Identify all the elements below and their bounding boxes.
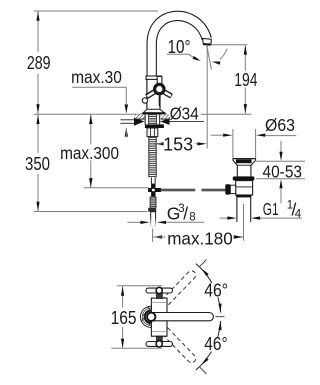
faucet spout outlet nozzle (203, 38, 212, 44)
supply tube (151, 212, 156, 227)
top view lower handle stem (157, 336, 163, 341)
deck hatch left (135, 115, 145, 119)
wire extension line lower connection level (34, 211, 148, 213)
top view lower handle bar (146, 342, 173, 347)
dimension 40-53 line (280, 141, 282, 152)
svg-text:46°: 46° (204, 281, 228, 301)
mounting nut (147, 128, 158, 137)
wire extension line top view upper (117, 285, 162, 287)
drain bottom band (236, 195, 251, 197)
svg-text:max.180: max.180 (167, 229, 233, 249)
pop-up cross fitting (151, 184, 155, 197)
pop-up horizontal rod (161, 188, 195, 190)
dimension 40-53 extension lines (256, 160, 305, 162)
drain o-ring (233, 176, 255, 180)
dimension 350 line (37, 114, 39, 153)
dimension 153 line (160, 143, 162, 145)
top view lower handle hub (156, 341, 162, 347)
faucet shank through deck (144, 114, 146, 124)
svg-text:max.300: max.300 (60, 143, 119, 163)
top view escutcheon (140, 306, 161, 327)
dimension 289 line (37, 11, 39, 52)
label diameter 34 leader (169, 121, 204, 123)
mounting washer (145, 124, 164, 128)
faucet shank thread upper (149, 114, 157, 116)
dimension 194 line (244, 45, 246, 71)
wire extension line spout outlet level (211, 44, 247, 46)
wire extension line top (spout apex level) (34, 10, 158, 12)
top view upper handle bar (146, 288, 173, 293)
dimension max.300 line (90, 114, 92, 145)
drain rod stub (230, 185, 235, 193)
hose nut G3/8 (148, 208, 156, 212)
faucet body tube (146, 79, 148, 109)
top view upper handle stem (157, 293, 163, 298)
top view spout hub (147, 313, 155, 321)
drain neck (236, 165, 238, 176)
svg-text:4: 4 (295, 208, 302, 220)
svg-text:max.30: max.30 (71, 67, 122, 87)
swivel arc lower arrowheads (201, 358, 208, 366)
svg-text:/: / (183, 204, 188, 224)
drain flange seal band (236, 159, 252, 163)
svg-text:46°: 46° (204, 334, 227, 354)
faucet base escutcheon (143, 109, 165, 113)
swivel arc lower (196, 321, 221, 370)
faucet collar flange (146, 76, 161, 79)
svg-text:350: 350 (25, 154, 50, 174)
deck hatch right (161, 115, 171, 119)
threaded rod (148, 137, 150, 178)
drain tailpipe (236, 197, 238, 222)
faucet spout gooseneck tube (152, 16, 207, 77)
pop-up rod upper link (150, 177, 152, 183)
wire swivel extension lower (200, 367, 207, 374)
dimension 165 line (122, 286, 124, 307)
cross handle left spoke (147, 92, 155, 97)
wire drain axis line (243, 204, 245, 241)
drain flange taper (233, 160, 237, 165)
hose ribbed section (150, 196, 156, 198)
cross handle front spoke line (158, 96, 160, 107)
wire swivel extension upper (200, 260, 207, 267)
cross handle right spoke (164, 92, 171, 96)
top view body (151, 298, 167, 336)
wire swivel extension mid (216, 316, 225, 318)
label max.30 leader (72, 86, 126, 88)
label diameter 34 background (168, 106, 201, 121)
cross handle hub (154, 84, 164, 94)
dimension max.180 line (153, 235, 162, 238)
wire extension line hose end level (84, 187, 149, 189)
label diameter 63 arrows (211, 134, 224, 136)
label 10 degrees right arc arrow (212, 62, 221, 65)
svg-text:165: 165 (111, 308, 137, 328)
svg-text:Ø34: Ø34 (170, 104, 199, 124)
dimension max.180 extension lines (152, 229, 154, 243)
top view upper handle hub (156, 287, 162, 293)
drain rod cap (225, 184, 230, 194)
svg-text:Ø63: Ø63 (265, 115, 295, 135)
svg-text:194: 194 (234, 70, 257, 90)
svg-text:40-53: 40-53 (263, 161, 303, 181)
wire extension line deck level (34, 113, 251, 115)
wire extension lines drain flange (232, 129, 234, 158)
swivel spout outline upper 46 (142, 269, 198, 326)
wire spout axis vertical reference (206, 46, 208, 149)
svg-text:8: 8 (189, 211, 195, 223)
swivel arc upper arrowheads (201, 269, 208, 277)
label 46 degrees lower background (203, 337, 230, 352)
deck bottom edges (135, 118, 145, 120)
drain flange top (233, 158, 256, 160)
svg-text:153: 153 (163, 134, 193, 154)
label 10 degrees leader (167, 53, 189, 55)
swivel spout outline lower 46 (142, 307, 198, 364)
wire extension line top view lower (111, 347, 162, 349)
pop-up rod knob (142, 98, 147, 103)
svg-text:G1: G1 (263, 199, 279, 219)
swivel arc upper (196, 264, 221, 313)
label max.30 thickness arrow (121, 119, 135, 121)
drain body (236, 181, 253, 195)
top view spout (153, 313, 213, 321)
wire spout axis tilted 10 deg (207, 45, 212, 70)
label G3/8 arrows (127, 221, 140, 223)
cross handle upper spoke (157, 76, 162, 85)
label G1 1/4 arrows (220, 217, 229, 219)
svg-text:289: 289 (27, 53, 51, 73)
label 46 degrees upper background (203, 283, 230, 298)
